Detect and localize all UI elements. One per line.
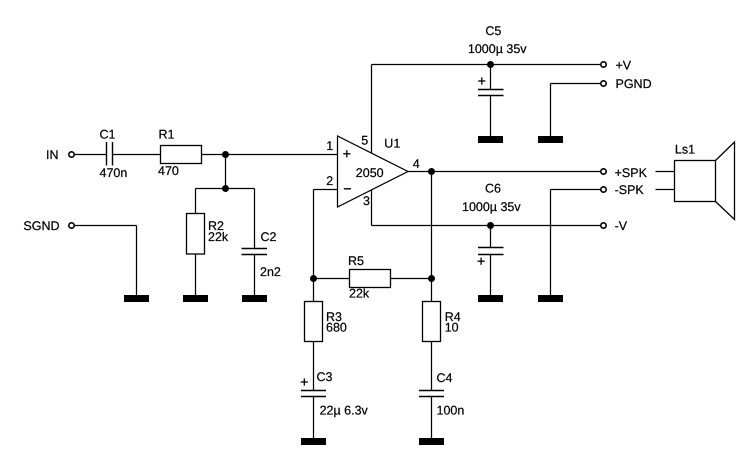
wire C4 to ground	[431, 397, 433, 439]
junction -V rail C6	[487, 222, 494, 229]
svg-text:470n: 470n	[100, 166, 128, 180]
wire -SPK down to ground	[550, 190, 552, 296]
junction +V rail C5	[487, 61, 494, 68]
wire R2 bottom to ground	[195, 254, 197, 296]
op-amp plus input symbol	[343, 150, 350, 157]
capacitor C5	[478, 90, 504, 96]
resistor R2	[187, 214, 205, 255]
terminal PGND	[601, 81, 606, 86]
wire -SPK stub to speaker	[656, 189, 675, 191]
wire -V rail	[372, 225, 601, 227]
svg-text:C6: C6	[485, 182, 501, 196]
wire C6 bottom to ground	[490, 255, 492, 296]
svg-text:C1: C1	[100, 128, 116, 142]
wire -SPK horizontal	[551, 189, 601, 191]
svg-text:680: 680	[326, 321, 347, 335]
wire R1 to op-amp pin 1	[202, 154, 338, 156]
wire pin 2 down to node B	[313, 190, 315, 279]
junction node A	[222, 151, 229, 158]
op-amp U1	[338, 136, 409, 207]
capacitor C6	[478, 248, 504, 255]
resistor R1	[161, 146, 202, 164]
wire C5 top	[490, 65, 492, 90]
wire C3 to ground	[313, 397, 315, 439]
capacitor C1	[107, 142, 113, 166]
ground C6	[478, 295, 503, 302]
wire PGND horizontal	[551, 83, 601, 85]
svg-text:R1: R1	[159, 128, 175, 142]
svg-text:SGND: SGND	[23, 219, 59, 233]
svg-text:3: 3	[363, 194, 370, 208]
wire to C2 top	[254, 189, 256, 249]
svg-text:22k: 22k	[349, 287, 370, 301]
wire C1 to R1	[113, 154, 161, 156]
wire op-amp output pin 4 to +SPK	[408, 171, 601, 173]
terminal -SPK	[601, 187, 606, 192]
svg-text:C3: C3	[317, 370, 333, 384]
speaker Ls1 horn	[716, 142, 735, 220]
wire C6 top	[490, 226, 492, 248]
resistor R5	[350, 270, 391, 288]
svg-text:R5: R5	[348, 254, 364, 268]
svg-text:10: 10	[445, 321, 459, 335]
wire to R2 top	[195, 189, 197, 214]
wire PGND down	[550, 84, 552, 137]
svg-text:5: 5	[361, 133, 368, 147]
junction output node	[428, 168, 435, 175]
ground -SPK	[538, 295, 563, 302]
wire node C to R4	[431, 279, 433, 302]
wire node B to R5	[314, 278, 350, 280]
wire C2 bottom to ground	[254, 255, 256, 296]
wire +SPK stub to speaker	[656, 171, 675, 173]
ground SGND	[124, 295, 149, 302]
terminal IN	[69, 152, 74, 157]
svg-text:+V: +V	[616, 58, 632, 72]
wire C5 bottom to ground	[490, 96, 492, 137]
svg-text:1000µ 35v: 1000µ 35v	[462, 200, 521, 214]
svg-text:U1: U1	[384, 137, 400, 151]
svg-text:C5: C5	[485, 24, 501, 38]
resistor R3	[305, 302, 323, 342]
wire pin 3 down	[371, 190, 373, 226]
speaker Ls1 body	[675, 161, 716, 202]
svg-text:470: 470	[158, 164, 179, 178]
wire R4 to C4	[431, 342, 433, 391]
junction node C	[428, 275, 435, 282]
ground C5	[478, 136, 503, 143]
svg-text:4: 4	[413, 157, 420, 171]
terminal +SPK	[601, 169, 606, 174]
svg-text:1000µ 35v: 1000µ 35v	[468, 42, 527, 56]
wire SGND down	[136, 226, 138, 296]
svg-text:2050: 2050	[356, 166, 384, 180]
op-amp minus input symbol	[344, 188, 351, 190]
wire +V rail	[372, 64, 601, 66]
wire op-amp pin 2	[314, 189, 338, 191]
ground R2	[183, 295, 208, 302]
junction node A lower	[222, 185, 229, 192]
svg-text:IN: IN	[46, 148, 59, 162]
wire node A down	[225, 155, 227, 189]
svg-text:-V: -V	[615, 219, 628, 233]
terminal SGND	[69, 223, 74, 228]
svg-text:100n: 100n	[437, 403, 465, 417]
wire SGND horizontal	[75, 225, 137, 227]
svg-text:+SPK: +SPK	[615, 166, 648, 180]
svg-text:22k: 22k	[208, 230, 229, 244]
terminal -V	[601, 223, 606, 228]
wire R2 to C2 horizontal	[196, 188, 255, 190]
resistor R4	[423, 302, 441, 342]
wire IN to C1	[75, 154, 107, 156]
wire output rail down	[431, 172, 433, 279]
svg-text:C4: C4	[437, 371, 453, 385]
ground C4	[419, 438, 444, 445]
ground PGND	[538, 136, 563, 143]
capacitor C3	[301, 391, 326, 397]
svg-text:PGND: PGND	[616, 77, 652, 91]
capacitor C4	[419, 391, 444, 397]
capacitor C2	[242, 249, 268, 255]
svg-text:22µ 6.3v: 22µ 6.3v	[320, 403, 369, 417]
ground C2	[242, 295, 267, 302]
svg-text:2: 2	[326, 174, 333, 188]
svg-text:C2: C2	[261, 230, 277, 244]
svg-text:-SPK: -SPK	[615, 183, 645, 197]
C3 polarity plus	[301, 378, 308, 385]
wire R3 to C3	[313, 342, 315, 391]
C5 polarity plus	[478, 77, 485, 84]
junction node B	[310, 275, 317, 282]
ground C3	[301, 438, 326, 445]
svg-text:2n2: 2n2	[260, 265, 281, 279]
wire node B to R3	[313, 279, 315, 302]
wire R5 to node C	[391, 278, 432, 280]
wire pin 5 up	[371, 65, 373, 154]
C6 polarity plus	[478, 258, 485, 265]
svg-text:Ls1: Ls1	[675, 142, 695, 156]
svg-text:1: 1	[326, 139, 333, 153]
terminal +V	[601, 62, 606, 67]
